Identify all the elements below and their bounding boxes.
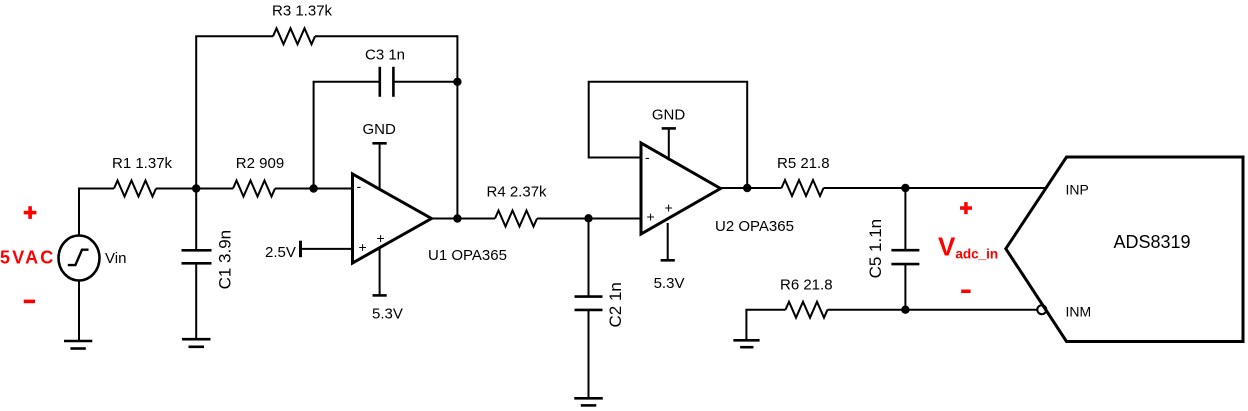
wire node A to R2 xyxy=(196,188,233,190)
ADC ADS8319 xyxy=(1006,157,1243,342)
svg-text:R1 1.37k: R1 1.37k xyxy=(112,155,173,172)
capacitor C3 xyxy=(380,67,394,97)
svg-text:ADS8319: ADS8319 xyxy=(1114,232,1191,252)
svg-text:5.3V: 5.3V xyxy=(654,275,685,292)
polarity minus adc (red) xyxy=(961,290,970,294)
svg-text:5VAC: 5VAC xyxy=(0,248,55,268)
capacitor C2 xyxy=(575,297,603,310)
wire node C down to C2 xyxy=(588,218,590,296)
voltage source Vin xyxy=(59,236,100,281)
svg-text:R5 21.8: R5 21.8 xyxy=(777,155,830,172)
wire node B to U1 inverting input xyxy=(314,188,353,190)
wire R6 to C5 bottom node xyxy=(828,309,906,311)
wire R4 to node C xyxy=(537,218,589,220)
wire C5 bottom node to INM bubble xyxy=(905,309,1037,311)
GND rail above U1 xyxy=(379,143,381,190)
svg-text:C5 1.1n: C5 1.1n xyxy=(866,219,885,279)
ground under source xyxy=(64,341,92,349)
resistor R5 xyxy=(782,180,824,196)
resistor R4 xyxy=(495,211,537,227)
svg-text:Vin: Vin xyxy=(105,250,126,267)
junction C3/R3 xyxy=(453,78,461,86)
svg-text:U1 OPA365: U1 OPA365 xyxy=(428,247,507,264)
resistor R6 xyxy=(786,302,828,318)
svg-text:-: - xyxy=(645,149,650,165)
ground under C2 xyxy=(574,398,603,405)
svg-text:R3 1.37k: R3 1.37k xyxy=(272,3,333,20)
wire node B up to C3 xyxy=(314,82,380,189)
INM open bubble xyxy=(1037,305,1046,314)
wire C2 to ground xyxy=(588,310,590,398)
resistor R1 xyxy=(114,181,156,197)
svg-text:R6 21.8: R6 21.8 xyxy=(780,277,833,294)
ground under C1 xyxy=(182,339,211,347)
wire R5 to C5 top node xyxy=(824,187,906,189)
svg-text:C2 1n: C2 1n xyxy=(606,282,625,327)
wire C5 bottom xyxy=(904,264,906,310)
junction C5 top xyxy=(901,184,909,192)
resistor R2 xyxy=(233,181,275,197)
wire feedback top right xyxy=(315,35,457,37)
wire node A down to C1 xyxy=(195,189,197,251)
wire feedback right vertical xyxy=(456,35,458,218)
wire 2.5V to U1 non-inverting input xyxy=(301,248,353,250)
supply 5.3V stub below U1 xyxy=(379,248,381,295)
wire ground to R6 xyxy=(746,310,785,340)
GND rail above U2 xyxy=(668,128,670,160)
capacitor C5 xyxy=(891,250,919,264)
supply 5.3V stub below U2 xyxy=(667,223,669,260)
svg-text:R4 2.37k: R4 2.37k xyxy=(487,184,548,201)
svg-text:+: + xyxy=(359,239,367,255)
op-amp U1 xyxy=(353,174,432,263)
svg-text:U2 OPA365: U2 OPA365 xyxy=(715,218,794,235)
wire U2 output to R5 xyxy=(720,187,782,189)
capacitor C1 xyxy=(182,250,212,263)
wire C5 top node to ADS8319 INP xyxy=(905,187,1046,189)
svg-text:5.3V: 5.3V xyxy=(372,306,403,323)
U2 feedback wire xyxy=(589,82,748,188)
svg-text:+: + xyxy=(377,230,385,246)
wire feedback top left xyxy=(195,35,273,37)
junction U2 output xyxy=(743,184,751,192)
svg-text:INP: INP xyxy=(1066,181,1089,197)
node C junction xyxy=(584,214,592,222)
ground left of R6 xyxy=(733,340,759,347)
polarity plus adc (red) xyxy=(960,202,972,214)
wire source top to rail xyxy=(78,189,80,236)
junction U1 output / R3 xyxy=(453,214,461,222)
junction C5 bottom xyxy=(901,306,909,314)
wire C1 to ground xyxy=(195,263,197,338)
wire node A up to feedback rail xyxy=(195,36,197,188)
wire node C to U2 non-inverting input xyxy=(589,218,642,220)
svg-text:R2 909: R2 909 xyxy=(236,155,284,172)
op-amp U2 xyxy=(641,143,721,234)
polarity minus (red) xyxy=(24,300,35,304)
wire R2 to node B xyxy=(275,188,314,190)
svg-text:INM: INM xyxy=(1066,303,1092,319)
node B junction xyxy=(309,184,317,192)
wire C5 top xyxy=(904,188,906,250)
svg-text:+: + xyxy=(647,209,655,225)
wire rail source to R1 xyxy=(78,188,114,190)
svg-text:+: + xyxy=(665,200,673,216)
wire source bottom to ground xyxy=(78,281,80,341)
wire R1 to node A xyxy=(156,188,196,190)
svg-text:C1 3.9n: C1 3.9n xyxy=(216,230,235,290)
node A junction xyxy=(192,184,200,192)
svg-text:C3 1n: C3 1n xyxy=(365,47,405,64)
svg-text:GND: GND xyxy=(363,121,397,138)
resistor R3 xyxy=(273,28,315,44)
svg-text:GND: GND xyxy=(652,107,686,124)
polarity plus (red) xyxy=(24,206,37,219)
wire C3 to junction xyxy=(393,81,457,83)
wire U1 output xyxy=(432,218,496,220)
reference 2.5V bar xyxy=(299,241,302,258)
svg-text:-: - xyxy=(357,178,362,194)
svg-text:2.5V: 2.5V xyxy=(265,244,296,261)
